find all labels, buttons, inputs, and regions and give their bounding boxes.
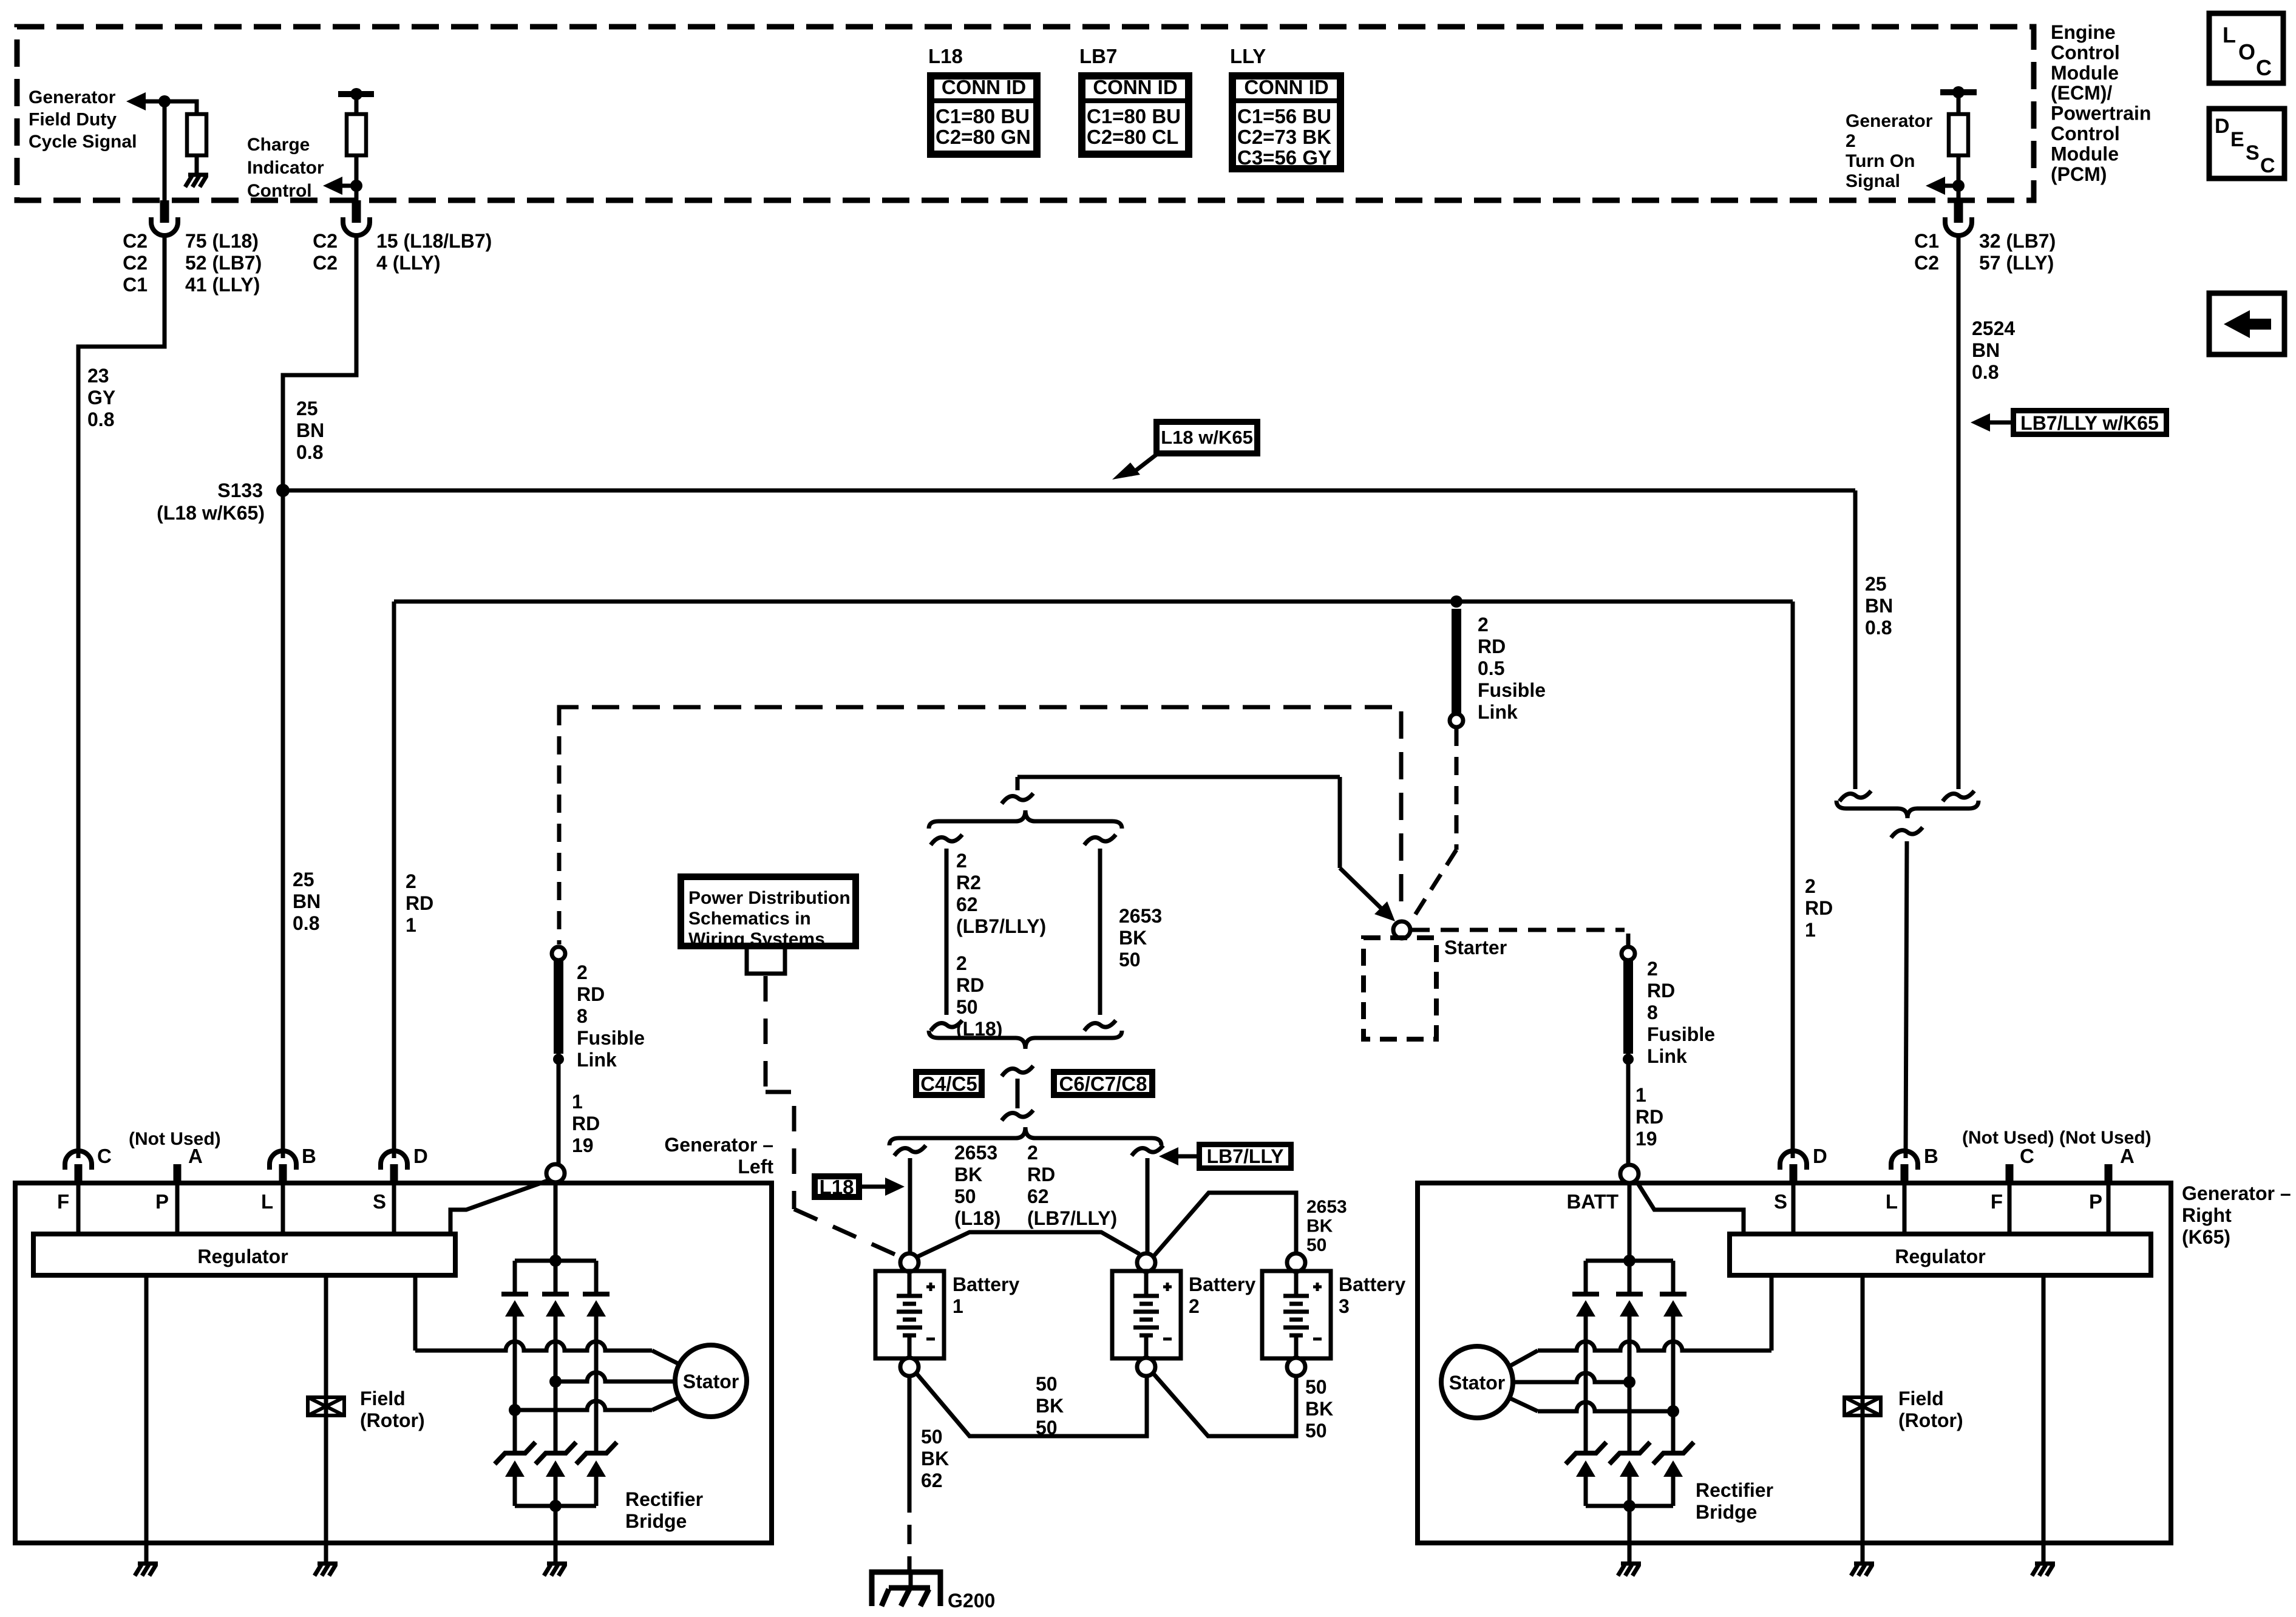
svg-text:Power Distribution: Power Distribution [688, 888, 851, 908]
svg-text:Wiring Systems: Wiring Systems [688, 929, 825, 949]
svg-text:CONN ID: CONN ID [942, 76, 1026, 98]
arrow LB7/LLY tag [1177, 1154, 1197, 1159]
svg-text:C: C [2020, 1145, 2034, 1167]
svg-text:C4/C5: C4/C5 [920, 1073, 977, 1095]
svg-text:Generator: Generator [29, 87, 116, 107]
svg-text:50: 50 [1306, 1235, 1326, 1255]
svg-text:50: 50 [1305, 1376, 1327, 1398]
svg-text:2: 2 [577, 961, 588, 983]
interrupt left branch top [931, 835, 962, 845]
wire P pin to regulator [175, 1184, 180, 1234]
svg-text:L18 w/K65: L18 w/K65 [1161, 427, 1253, 448]
svg-text:C1=56 BU: C1=56 BU [1237, 105, 1331, 127]
svg-text:CONN ID: CONN ID [1093, 76, 1177, 98]
connector C (gen left F) [65, 1151, 92, 1170]
svg-text:2653: 2653 [954, 1142, 997, 1164]
svg-text:23: 23 [87, 365, 109, 387]
svg-text:F: F [57, 1190, 69, 1213]
zener bottom R1 [1566, 1442, 1606, 1464]
arrow generator-field-duty [126, 92, 146, 110]
tag box LB7/LLY [1200, 1145, 1291, 1168]
wire L pin right [1903, 1184, 1907, 1234]
fusible link 2 RD 8 (right) [1622, 947, 1635, 960]
svg-text:Right: Right [2182, 1204, 2232, 1226]
interrupt 25BN end [1839, 791, 1871, 801]
svg-text:B: B [1924, 1145, 1938, 1167]
svg-text:C2=80 CL: C2=80 CL [1087, 126, 1178, 148]
svg-text:RD: RD [956, 974, 984, 996]
DESC legend box [2209, 109, 2284, 178]
wire charge pin drop [355, 186, 359, 200]
interrupt left branch bottom [931, 1020, 962, 1031]
svg-text:C2: C2 [123, 230, 148, 252]
svg-text:B: B [302, 1145, 316, 1167]
wire turnon pin drop [1957, 186, 1961, 200]
wire bridge batt2-batt3 (+) [1153, 1193, 1296, 1257]
svg-text:50: 50 [921, 1426, 943, 1448]
callout bracket [747, 949, 785, 974]
svg-text:32 (LB7): 32 (LB7) [1979, 230, 2056, 252]
svg-text:50: 50 [954, 1185, 976, 1207]
svg-text:Control: Control [2051, 41, 2120, 63]
svg-text:Powertrain: Powertrain [2051, 103, 2151, 124]
svg-text:BK: BK [954, 1164, 982, 1185]
svg-text:Stator: Stator [1449, 1372, 1505, 1394]
zener bottom R3 [1653, 1442, 1694, 1464]
svg-text:CONN ID: CONN ID [1244, 76, 1328, 98]
diode top R2 [1628, 1261, 1632, 1294]
diode top R3 [1671, 1261, 1676, 1294]
svg-text:C1=80 BU: C1=80 BU [936, 105, 1030, 127]
svg-text:C: C [2260, 154, 2275, 177]
wire T to resistor right [1957, 92, 1961, 114]
stator link top-diag left [652, 1351, 681, 1365]
wire C2 pin drop [163, 101, 167, 200]
svg-text:57 (LLY): 57 (LLY) [1979, 252, 2054, 274]
svg-text:75 (L18): 75 (L18) [185, 230, 259, 252]
svg-text:E: E [2230, 128, 2244, 151]
interrupt battery2 wire top [1132, 1145, 1163, 1156]
bridge bottom bar right [1586, 1504, 1673, 1508]
brace split to batteries [889, 1127, 1161, 1145]
svg-text:Field: Field [360, 1388, 406, 1409]
svg-text:Link: Link [1647, 1045, 1687, 1067]
svg-text:15 (L18/LB7): 15 (L18/LB7) [376, 230, 492, 252]
Generator-Right box [1418, 1183, 2171, 1543]
brace split L18/LB7-LLY [929, 810, 1122, 829]
arrow charge-indicator [323, 177, 342, 195]
svg-text:L: L [261, 1190, 273, 1213]
svg-text:Regulator: Regulator [1895, 1246, 1985, 1267]
stator hop line top right [1538, 1341, 1771, 1351]
stator link top-diag right [1509, 1351, 1538, 1366]
wire 1RD19 into B+ junction diag [450, 1180, 549, 1234]
svg-text:1: 1 [1635, 1084, 1646, 1106]
wire to generator right B [1906, 841, 1907, 1158]
callout box Power Distribution [681, 877, 856, 946]
field rotor left [308, 1397, 344, 1415]
stub A not-used (left) [174, 1164, 182, 1183]
wire L pin to regulator [281, 1184, 285, 1234]
svg-text:Signal: Signal [1846, 171, 1900, 191]
svg-text:2: 2 [1027, 1142, 1038, 1164]
Regulator box left [33, 1234, 455, 1275]
svg-text:(Not Used): (Not Used) [129, 1129, 221, 1149]
Generator-Left box [15, 1183, 772, 1543]
wire dashed to left fusible [557, 707, 562, 944]
ground G200 [909, 1573, 913, 1588]
svg-text:C: C [97, 1145, 112, 1167]
svg-text:C2: C2 [313, 230, 338, 252]
svg-text:O: O [2238, 39, 2255, 64]
wire regulator sense [413, 1275, 418, 1351]
wire S pin to regulator [392, 1184, 396, 1234]
wire resistor to node [355, 155, 359, 186]
svg-text:1: 1 [572, 1091, 583, 1113]
svg-text:Field Duty: Field Duty [29, 110, 117, 130]
node starter junction [1393, 921, 1410, 938]
wire batt1 neg dashed [908, 1493, 912, 1573]
tag box L18 w/K65 [1156, 422, 1257, 453]
battery B1 [900, 1253, 919, 1272]
svg-text:D: D [413, 1145, 428, 1167]
wire starter diagonal [1340, 868, 1388, 915]
svg-text:D: D [2215, 115, 2230, 138]
wire regulator gnd2 [2042, 1275, 2046, 1543]
svg-text:Control: Control [247, 181, 312, 201]
svg-text:2: 2 [1647, 958, 1658, 980]
svg-text:P: P [2089, 1190, 2102, 1213]
svg-text:BK: BK [1119, 927, 1147, 949]
connector B (gen left L) [270, 1151, 296, 1170]
svg-text:Schematics in: Schematics in [688, 909, 811, 929]
zener bottom L1 [495, 1442, 535, 1464]
interrupt above brace [1016, 777, 1020, 790]
svg-text:Module: Module [2051, 143, 2119, 164]
svg-text:F: F [1991, 1190, 2003, 1213]
svg-text:4 (LLY): 4 (LLY) [376, 252, 441, 274]
svg-text:2: 2 [1805, 875, 1816, 897]
svg-text:Generator: Generator [1846, 111, 1933, 131]
wire bridge center to gnd [554, 1506, 558, 1543]
zener bottom R2 [1609, 1442, 1650, 1464]
svg-text:Battery: Battery [1189, 1273, 1255, 1295]
ground gen-right 2 [2032, 1564, 2055, 1576]
battery B2 [1137, 1253, 1155, 1272]
svg-text:RD: RD [1478, 636, 1506, 657]
wire regulator field [324, 1275, 328, 1543]
svg-text:L: L [1886, 1190, 1898, 1213]
svg-text:(L18 w/K65): (L18 w/K65) [157, 502, 265, 524]
wire 2RD1 left drop to D [392, 602, 396, 1158]
wire to battery 2 [1146, 1158, 1150, 1253]
field rotor right [1844, 1397, 1881, 1415]
wire 2RD1 right drop to D [1791, 602, 1795, 1158]
svg-text:S133: S133 [217, 480, 263, 501]
svg-text:3: 3 [1339, 1295, 1350, 1317]
brace gather to C4-C8 [929, 1031, 1122, 1049]
interrupt 2524BN end [1943, 791, 1974, 801]
svg-text:Link: Link [1478, 701, 1518, 723]
connector C2 (field duty) [160, 200, 169, 223]
svg-text:C: C [2256, 55, 2272, 80]
node T-bar right dot [1952, 86, 1965, 98]
interrupt right branch bottom [1084, 1020, 1116, 1031]
svg-text:LB7/LLY w/K65: LB7/LLY w/K65 [2020, 412, 2159, 434]
ground gen-right f [1851, 1564, 1874, 1576]
wire P pin right [2107, 1184, 2111, 1234]
connector B (gen right L) [1891, 1151, 1918, 1170]
svg-text:25: 25 [293, 869, 314, 890]
node fuse bottom dot (left) [553, 1054, 564, 1065]
diode top L3 [594, 1261, 599, 1294]
diode top L2 [554, 1261, 558, 1294]
svg-text:2653: 2653 [1119, 905, 1162, 927]
arrow L18 w/K65 [1130, 454, 1157, 475]
svg-text:G200: G200 [948, 1590, 995, 1612]
fusible link 2 RD 8 (left) [552, 947, 565, 960]
svg-text:0.8: 0.8 [87, 408, 114, 430]
svg-text:8: 8 [1647, 1002, 1658, 1023]
svg-text:62: 62 [1027, 1185, 1049, 1207]
node junction dot J1 [158, 95, 171, 107]
wire F pin to regulator [76, 1184, 81, 1234]
wire 25 BN 0.8 to generator B [283, 236, 356, 1158]
svg-text:BN: BN [293, 890, 321, 912]
brace gather right [1836, 801, 1978, 818]
svg-text:(L18): (L18) [954, 1207, 1000, 1229]
node B+ circle left [546, 1164, 565, 1182]
diode top L1 [513, 1261, 517, 1294]
wire F pin right [2008, 1184, 2012, 1234]
svg-text:BN: BN [1972, 339, 2000, 361]
svg-text:S: S [2246, 141, 2260, 164]
ground gen-left 3 [544, 1564, 567, 1576]
svg-text:BN: BN [296, 419, 324, 441]
interrupt battery1 wire top [894, 1145, 926, 1156]
svg-text:62: 62 [956, 893, 978, 915]
svg-text:41 (LLY): 41 (LLY) [185, 274, 260, 296]
svg-text:LB7/LLY: LB7/LLY [1207, 1145, 1284, 1167]
interrupt right branch top [1084, 835, 1116, 845]
svg-text:2524: 2524 [1972, 317, 2015, 339]
svg-text:Bridge: Bridge [1696, 1501, 1757, 1523]
wire batt1 neg down [908, 1376, 912, 1493]
wire regulator sense right [1770, 1275, 1774, 1351]
svg-text:C2: C2 [1914, 252, 1939, 274]
svg-text:(LB7/LLY): (LB7/LLY) [1027, 1207, 1117, 1229]
svg-text:RD: RD [1635, 1106, 1663, 1128]
wire 23 GY 0.8 to generator F [78, 236, 165, 1158]
wire starter feed drop [1338, 777, 1342, 868]
resistor R-field [187, 114, 206, 155]
svg-text:C2=80 GN: C2=80 GN [936, 126, 1031, 148]
connector C2 (charge ind) [352, 200, 361, 223]
wire batt1-batt2 (-) [916, 1373, 1147, 1436]
svg-text:(Rotor): (Rotor) [1898, 1409, 1963, 1431]
svg-text:R2: R2 [956, 872, 981, 893]
svg-text:Rectifier: Rectifier [1696, 1479, 1773, 1501]
wire BATT diag to regulator [1636, 1181, 1744, 1234]
svg-text:C1: C1 [1914, 230, 1939, 252]
svg-text:Left: Left [738, 1156, 773, 1178]
svg-text:Engine: Engine [2051, 21, 2116, 43]
svg-text:2653: 2653 [1306, 1197, 1347, 1217]
svg-text:50: 50 [1036, 1373, 1058, 1395]
svg-text:Stator: Stator [683, 1371, 739, 1392]
svg-text:19: 19 [572, 1134, 594, 1156]
wire resistor to ground [195, 155, 199, 174]
wire S pin right [1792, 1184, 1796, 1234]
wire 1 RD 19 (left) [557, 1054, 561, 1164]
wire T-bar [338, 91, 374, 97]
svg-text:19: 19 [1635, 1128, 1657, 1150]
svg-text:0.8: 0.8 [1865, 617, 1892, 639]
interrupt below right brace [1891, 827, 1923, 838]
svg-text:Generator –: Generator – [664, 1134, 773, 1156]
wire bridge batt1-batt2 (+) [917, 1232, 1140, 1257]
connector D (gen left S) [381, 1151, 407, 1170]
svg-text:Regulator: Regulator [197, 1246, 288, 1267]
svg-text:2: 2 [1846, 131, 1856, 151]
wire BATT to bridge [1628, 1183, 1632, 1261]
svg-text:L18: L18 [928, 45, 963, 67]
battery B3 [1287, 1253, 1305, 1272]
svg-text:Fusible: Fusible [577, 1027, 645, 1049]
resistor R-charge [347, 114, 366, 155]
svg-text:Battery: Battery [953, 1273, 1019, 1295]
wire regulator gnd1 [144, 1275, 149, 1543]
svg-text:Field: Field [1898, 1388, 1944, 1409]
connector C1/C2 (turn on) [1954, 200, 1963, 223]
diode top R1 [1584, 1261, 1588, 1294]
node charge dot [350, 180, 362, 192]
Regulator box right [1730, 1234, 2151, 1275]
tag box LB7/LLY w/K65 [2014, 411, 2167, 435]
svg-text:RD: RD [1647, 980, 1675, 1002]
svg-text:1: 1 [953, 1295, 963, 1317]
svg-text:C2=73 BK: C2=73 BK [1237, 126, 1331, 148]
wire 1 RD 19 (right) [1626, 1054, 1631, 1165]
svg-text:50: 50 [1305, 1420, 1327, 1442]
wire to battery 1 [908, 1158, 912, 1253]
ECM/PCM module dashed box [17, 27, 2034, 200]
node fuse tap dot [1450, 595, 1462, 608]
svg-text:S: S [1774, 1190, 1787, 1213]
arrow legend box [2209, 293, 2284, 354]
svg-text:(PCM): (PCM) [2051, 163, 2107, 185]
svg-text:BN: BN [1865, 595, 1893, 617]
ground gen-left 1 [135, 1564, 158, 1576]
wire dashed PD drop [764, 976, 768, 1092]
svg-text:(K65): (K65) [2182, 1226, 2230, 1248]
wire 2 RD 1 bus [394, 600, 1793, 604]
wire dashed starter to fuse right [1411, 928, 1625, 932]
svg-text:LB7: LB7 [1079, 45, 1117, 67]
node turn-on dot [1952, 180, 1965, 192]
svg-text:C2: C2 [313, 252, 338, 274]
arrow legend glyph [2224, 310, 2271, 338]
svg-text:Generator –: Generator – [2182, 1182, 2291, 1204]
bridge bottom bar left [515, 1504, 596, 1508]
wire arrow shaft right [1945, 184, 1958, 188]
stator circle right [1441, 1346, 1513, 1418]
svg-text:Indicator: Indicator [247, 158, 324, 178]
svg-text:RD: RD [1027, 1164, 1055, 1185]
wire starter feed [1017, 775, 1340, 779]
svg-text:GY: GY [87, 387, 115, 408]
svg-text:0.8: 0.8 [293, 912, 319, 934]
wire T-bar right [1940, 89, 1977, 95]
svg-text:Turn On: Turn On [1846, 151, 1915, 171]
node BATT circle [1620, 1165, 1639, 1183]
svg-text:L: L [2223, 22, 2236, 47]
zener bottom L2 [535, 1442, 576, 1464]
svg-text:(ECM)/: (ECM)/ [2051, 82, 2112, 104]
wire right branch [1098, 849, 1102, 1015]
svg-text:P: P [155, 1190, 169, 1213]
wire 2524 BN 0.8 [1957, 236, 1961, 789]
arrow L18 tag [862, 1185, 888, 1189]
wire node to resistor [165, 101, 197, 114]
svg-text:A: A [188, 1145, 203, 1167]
svg-text:RD: RD [577, 983, 605, 1005]
wire regulator gnd-f [1861, 1275, 1865, 1543]
LOC legend box [2209, 13, 2283, 83]
node fuse bottom dot (right) [1623, 1054, 1634, 1065]
tag box C4/C5 [916, 1072, 982, 1095]
svg-text:50: 50 [1036, 1417, 1058, 1439]
svg-text:Module: Module [2051, 62, 2119, 84]
svg-text:Cycle Signal: Cycle Signal [29, 132, 137, 152]
resistor R-turnon [1949, 114, 1968, 155]
svg-text:Rectifier: Rectifier [625, 1488, 703, 1510]
svg-text:S: S [373, 1190, 386, 1213]
svg-text:Battery: Battery [1339, 1273, 1405, 1295]
starter dashed box [1364, 938, 1436, 1039]
svg-text:1: 1 [1805, 919, 1816, 941]
wire resistor to arrow node [1957, 155, 1961, 186]
wire dashed PD diagonal [794, 1209, 902, 1258]
svg-text:2: 2 [956, 952, 967, 974]
svg-text:Link: Link [577, 1049, 617, 1071]
stator hop line bottom right [1667, 1405, 1679, 1417]
stator circle left [675, 1345, 747, 1417]
tag box L18 [815, 1176, 859, 1197]
stub C not-used (right) [2006, 1164, 2014, 1183]
ground gen-right 3 [1618, 1564, 1641, 1576]
wire T to resistor [355, 94, 359, 114]
svg-text:0.8: 0.8 [1972, 361, 1999, 383]
stator hop line mid right [1623, 1376, 1635, 1388]
wire arrow shaft [342, 184, 356, 188]
fusible link 2 RD 0.5 [1452, 609, 1461, 713]
svg-text:BATT: BATT [1566, 1190, 1618, 1213]
wire B+ to bridge [554, 1182, 558, 1261]
bridge top bar left [515, 1259, 596, 1263]
wire batt2-batt3 (-) [1153, 1373, 1296, 1436]
svg-text:C1: C1 [123, 274, 148, 296]
wire dashed PD jog [766, 1092, 794, 1209]
bridge top bar right [1586, 1259, 1673, 1263]
connector D (gen right S) [1780, 1151, 1807, 1170]
svg-text:Bridge: Bridge [625, 1510, 687, 1532]
svg-text:25: 25 [1865, 573, 1887, 595]
arrow LB7/LLY w/K65 [1971, 413, 1990, 432]
stator hop line bottom left [509, 1404, 521, 1416]
svg-text:BK: BK [1306, 1216, 1333, 1236]
svg-text:C2: C2 [123, 252, 148, 274]
